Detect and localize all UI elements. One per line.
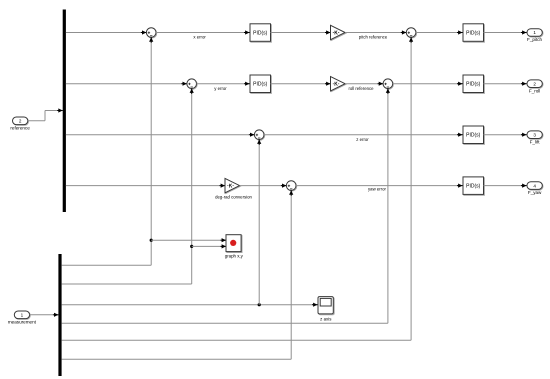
svg-text:PID(s): PID(s) — [466, 30, 481, 36]
svg-text:graph x,y: graph x,y — [225, 253, 244, 258]
svg-text:2: 2 — [533, 81, 536, 86]
svg-text:pitch reference: pitch reference — [359, 35, 388, 40]
svg-text:F_roll: F_roll — [529, 88, 541, 93]
svg-text:yaw error: yaw error — [368, 187, 386, 192]
svg-text:F_lift: F_lift — [530, 139, 541, 144]
svg-text:PID(s): PID(s) — [466, 133, 481, 139]
svg-text:z axis: z axis — [320, 317, 332, 322]
svg-text:measurement: measurement — [8, 319, 37, 324]
svg-text:3: 3 — [533, 132, 536, 137]
svg-text:1: 1 — [533, 30, 536, 35]
svg-text:y error: y error — [214, 86, 227, 91]
svg-text:z error: z error — [356, 137, 369, 142]
svg-text:PID(s): PID(s) — [253, 82, 268, 88]
svg-text:F_pitch: F_pitch — [527, 37, 543, 42]
svg-text:1: 1 — [21, 313, 24, 318]
svg-text:PID(s): PID(s) — [253, 30, 268, 36]
svg-text:PID(s): PID(s) — [466, 82, 481, 88]
svg-text:PID(s): PID(s) — [466, 183, 481, 189]
svg-text:roll reference: roll reference — [348, 86, 374, 91]
svg-text:F_yaw: F_yaw — [528, 190, 542, 195]
svg-text:deg-rad conversion: deg-rad conversion — [215, 195, 252, 200]
svg-text:4: 4 — [533, 183, 536, 188]
svg-text:x error: x error — [193, 35, 206, 40]
svg-text:2: 2 — [19, 119, 22, 124]
svg-text:reference: reference — [10, 125, 30, 130]
